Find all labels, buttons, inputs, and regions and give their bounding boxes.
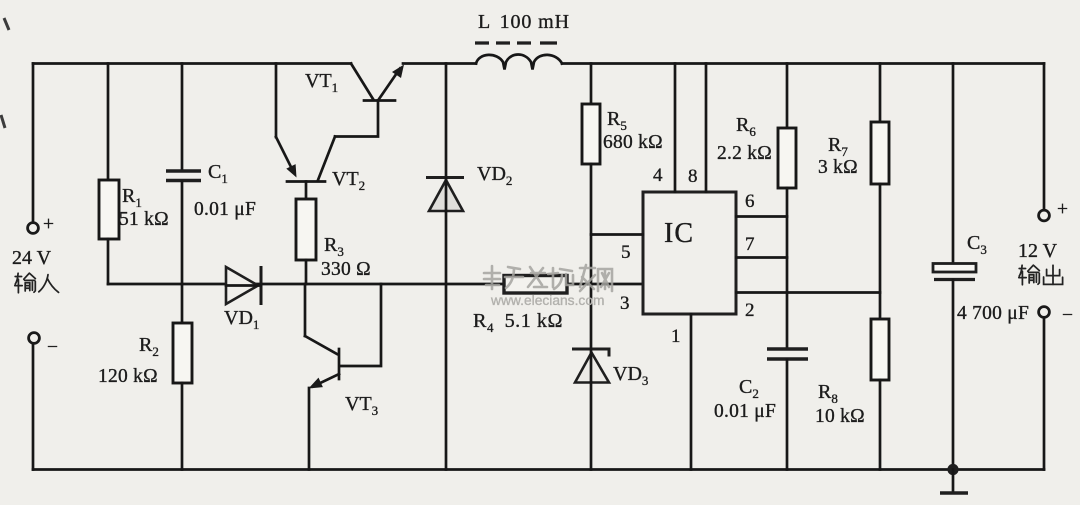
svg-text:24 V: 24 V — [12, 247, 52, 269]
svg-text:0.01 μF: 0.01 μF — [194, 199, 256, 220]
svg-text:0.01 μF: 0.01 μF — [714, 401, 776, 422]
svg-text:R4 5.1 kΩ: R4 5.1 kΩ — [473, 310, 563, 335]
transistor VT1 — [364, 99, 395, 102]
wire C2 lower lead — [786, 360, 789, 470]
resistor R2 — [173, 323, 192, 383]
wire R5 upper lead — [590, 64, 593, 105]
capacitor C3 electrolytic — [933, 264, 976, 273]
ground — [952, 470, 955, 493]
wire VD2 lower lead — [445, 211, 448, 470]
output minus terminal — [1039, 307, 1050, 318]
wire top rail mid — [403, 62, 476, 65]
svg-text:330 Ω: 330 Ω — [321, 259, 371, 280]
svg-text:1: 1 — [671, 326, 681, 347]
svg-text:8: 8 — [688, 166, 698, 187]
node input label Chinese shu-ru — [15, 273, 36, 293]
wire C1 upper lead — [181, 64, 184, 170]
transistor VT2 — [287, 180, 325, 183]
wire pin 4 — [674, 64, 677, 193]
svg-text:2: 2 — [745, 300, 755, 321]
wire R5 lower lead through crossings — [590, 164, 593, 349]
resistor R4 — [504, 276, 567, 294]
resistor R5 — [582, 104, 600, 164]
svg-text:−: − — [47, 337, 58, 358]
svg-text:51 kΩ: 51 kΩ — [119, 209, 169, 230]
wire VT2 emitter stub — [305, 182, 308, 200]
svg-text:4 700 μF: 4 700 μF — [957, 303, 1029, 324]
wire output plus riser — [1043, 64, 1046, 211]
wire pin 2 — [736, 291, 880, 294]
wire pin 8 — [705, 64, 708, 193]
scan artifact marks — [4, 18, 9, 30]
svg-text:3: 3 — [620, 293, 630, 314]
resistor R6 — [778, 128, 796, 188]
diode VD3 zener — [572, 349, 609, 357]
wire R1 upper lead — [107, 64, 110, 181]
wire top rail left — [33, 62, 351, 65]
wire input plus riser — [32, 64, 35, 223]
wire input minus riser — [32, 344, 35, 470]
svg-text:10 kΩ: 10 kΩ — [815, 406, 865, 427]
svg-text:IC: IC — [664, 218, 694, 249]
wire pin 7 — [736, 256, 787, 259]
wire bottom rail — [33, 468, 1044, 471]
svg-text:7: 7 — [745, 234, 755, 255]
junction ground node — [947, 464, 958, 475]
wire output minus riser — [1043, 318, 1046, 470]
diode VD1 — [226, 267, 258, 304]
svg-text:12 V: 12 V — [1018, 240, 1058, 262]
wire VD3 lower lead — [590, 383, 593, 470]
wire R2 upper lead — [181, 284, 184, 323]
svg-text:L 100 mH: L 100 mH — [478, 11, 570, 33]
wire R7 lower lead — [879, 184, 882, 319]
svg-text:680 kΩ: 680 kΩ — [603, 132, 663, 153]
svg-text:+: + — [1057, 199, 1068, 220]
wire pin 5 — [591, 233, 643, 236]
wire top rail right — [562, 62, 1044, 65]
svg-text:4: 4 — [653, 165, 663, 186]
capacitor C1 — [166, 171, 201, 181]
svg-text:6: 6 — [745, 191, 755, 212]
svg-text:+: + — [43, 214, 54, 235]
capacitor C2 — [767, 349, 808, 359]
wire R8 lower lead — [879, 380, 882, 470]
svg-text:5: 5 — [621, 242, 631, 263]
input minus terminal — [29, 333, 40, 344]
wire pin 1 — [690, 314, 693, 470]
wire R2 lower lead — [181, 383, 184, 470]
inductor L 100 mH — [476, 55, 562, 70]
resistor R1 — [99, 180, 119, 239]
wire R1 lower lead — [107, 239, 110, 284]
wire C1 lower lead to middle rail — [181, 182, 184, 284]
wire C3 lower lead — [952, 280, 955, 470]
svg-text:−: − — [1062, 305, 1073, 326]
svg-text:2.2 kΩ: 2.2 kΩ — [717, 143, 772, 164]
resistor R8 — [871, 319, 889, 380]
watermark text blobs — [484, 266, 500, 289]
IC U1 box — [643, 192, 736, 314]
svg-text:www.elecians.com: www.elecians.com — [490, 293, 604, 308]
transistor VT3 — [304, 284, 307, 336]
wire R7 upper lead — [879, 64, 882, 123]
resistor R7 — [871, 122, 889, 184]
wire R6 upper lead — [786, 64, 789, 129]
wire middle rail — [108, 283, 643, 286]
wire C3 upper lead — [952, 64, 955, 265]
wire pin 6 — [736, 215, 787, 218]
diode VD2 — [426, 176, 464, 179]
output plus terminal — [1039, 210, 1050, 221]
resistor R3 — [296, 199, 316, 260]
wire VD2 upper lead — [445, 64, 448, 179]
svg-text:120 kΩ: 120 kΩ — [98, 366, 158, 387]
svg-text:3 kΩ: 3 kΩ — [818, 157, 858, 178]
input plus terminal — [28, 223, 39, 234]
wire R6 lower lead — [786, 188, 789, 348]
wire R3 lower lead — [305, 260, 308, 284]
wire VT1 base to VT2 collector link — [335, 101, 378, 137]
node output label Chinese shu-chu — [1019, 265, 1040, 285]
